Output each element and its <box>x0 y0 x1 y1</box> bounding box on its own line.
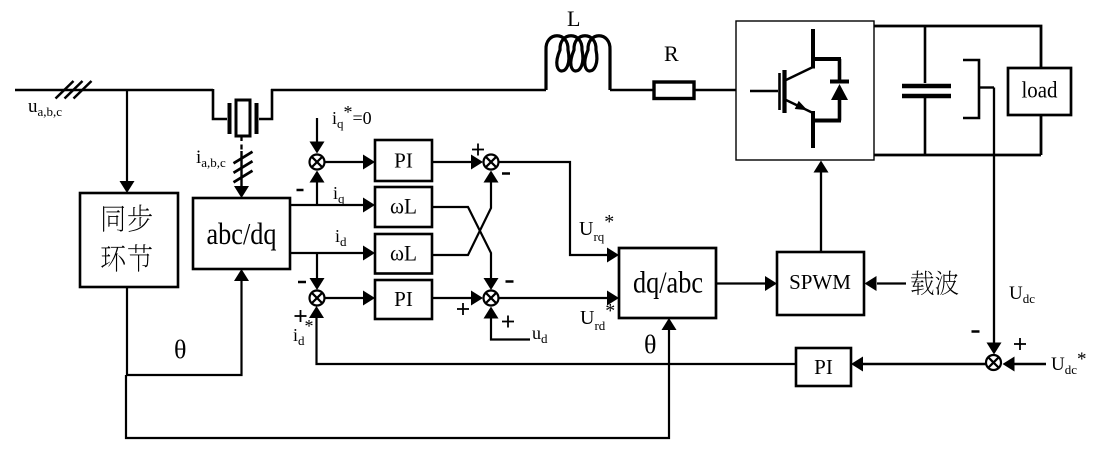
label id <box>335 226 347 249</box>
wire ct dip right <box>259 89 272 119</box>
wire iq ref input <box>310 118 325 154</box>
label id ref <box>293 316 314 348</box>
svg-text:R: R <box>664 41 679 66</box>
label carrier <box>911 270 958 295</box>
igbt Q1 emitter lead <box>811 111 841 148</box>
wire Udc ref input <box>1003 357 1047 372</box>
svg-text:θ: θ <box>644 330 656 359</box>
pi controller PI1 box <box>375 140 432 181</box>
summing junction U3a <box>484 155 499 170</box>
dc bus bottom <box>874 115 1041 155</box>
label Udc ref <box>1051 349 1087 377</box>
wire spwm to bridge <box>814 161 829 253</box>
label minus at U4 <box>972 330 980 333</box>
wire PI3 to id ref <box>309 306 796 364</box>
label Urd ref <box>580 300 615 333</box>
wire ct output dashed <box>240 136 242 152</box>
label plus at U4 <box>1014 338 1026 350</box>
wire U3b to dqabc <box>499 291 619 306</box>
label plus id ref <box>295 310 307 322</box>
3-phase slash marks current <box>234 152 253 183</box>
wire iq feedback up <box>310 171 325 206</box>
wire PI1 to U3a <box>432 155 483 170</box>
label dq/abc <box>633 265 703 300</box>
svg-text:PI: PI <box>394 149 413 173</box>
wire tap to sync block <box>120 89 135 193</box>
sync block box <box>80 193 178 287</box>
label wL1 <box>390 194 417 219</box>
wire ct to abcdq <box>234 151 249 198</box>
label plus U3b left <box>457 303 469 315</box>
wire theta to abcdq <box>127 269 249 375</box>
wire PI2 to U3b <box>432 291 483 306</box>
summing junction U1 <box>310 155 325 170</box>
wire wL1 cross to U3b <box>432 207 499 290</box>
decoupling wL2 box <box>375 234 432 274</box>
load box <box>1008 68 1071 115</box>
pi controller PI3 box <box>796 348 851 386</box>
label i_abc <box>196 147 226 170</box>
wire theta to dqabc <box>126 318 677 438</box>
svg-text:dq/abc: dq/abc <box>633 265 703 300</box>
capacitor C lower lead <box>924 98 927 155</box>
label theta 2 <box>644 330 656 359</box>
wire carrier input <box>865 276 907 291</box>
label minus U3a <box>502 172 510 175</box>
svg-text:ωL: ωL <box>390 194 417 219</box>
wire inductor to resistor <box>610 89 654 92</box>
pi controller PI2 box <box>375 280 432 319</box>
dc bus top <box>874 26 1041 68</box>
igbt Q1 body bar <box>782 70 786 113</box>
wire id out <box>290 246 375 261</box>
spwm block box <box>777 252 864 315</box>
voltage sensor bracket <box>963 60 979 118</box>
wire ct dip left <box>213 89 227 119</box>
wire U3a to dqabc <box>499 162 619 263</box>
wire iq out <box>290 198 375 213</box>
wire dqabc to spwm <box>716 276 777 291</box>
svg-text:load: load <box>1022 78 1058 103</box>
igbt Q1 collector lead <box>811 29 841 69</box>
resistor R <box>654 82 694 99</box>
summing junction U2 <box>310 291 325 306</box>
label u_abc <box>28 96 62 119</box>
summing junction U4 <box>986 355 1001 370</box>
label plus ud <box>502 316 514 328</box>
label L <box>567 6 580 31</box>
capacitor C plates <box>902 86 951 96</box>
wire U1 to PI1 <box>325 155 375 170</box>
label PI2 <box>394 287 413 311</box>
label theta 1 <box>174 335 186 364</box>
abc-dq block box <box>193 198 290 269</box>
3-phase slash marks voltage <box>56 81 92 99</box>
label minus U3b <box>506 280 514 283</box>
label load <box>1022 78 1058 103</box>
label minus id <box>298 281 306 284</box>
label Urq ref <box>579 211 614 244</box>
svg-text:L: L <box>567 6 580 31</box>
label iq <box>333 183 345 206</box>
label sync text line2 <box>101 244 152 272</box>
label plus U3a <box>472 144 484 156</box>
wire ac input <box>15 89 213 92</box>
svg-text:θ: θ <box>174 335 186 364</box>
label SPWM <box>789 270 851 294</box>
wire wL2 cross to U3a <box>432 171 499 256</box>
svg-text:abc/dq: abc/dq <box>207 216 277 251</box>
converter bridge box <box>736 21 874 160</box>
label R <box>664 41 679 66</box>
igbt Q1 emitter diagonal <box>786 100 813 114</box>
wire U4 to PI3 <box>851 357 986 372</box>
wire U2 to PI2 <box>325 291 375 306</box>
svg-text:PI: PI <box>814 355 833 379</box>
igbt Q1 collector diagonal <box>786 67 813 80</box>
inductor L <box>546 36 610 90</box>
label sync text line1 <box>103 204 152 231</box>
summing junction U3b <box>484 291 499 306</box>
freewheel diode D1 <box>830 59 849 121</box>
label Udc <box>1009 283 1035 306</box>
label PI1 <box>394 149 413 173</box>
wire ac to inductor <box>271 89 546 92</box>
svg-text:PI: PI <box>394 287 413 311</box>
svg-text:SPWM: SPWM <box>789 270 851 294</box>
igbt Q1 gate lead <box>750 90 778 93</box>
svg-text:ωL: ωL <box>390 241 417 266</box>
label PI3 <box>814 355 833 379</box>
wire sensor tap <box>979 86 994 88</box>
label ud <box>532 323 548 346</box>
wire ud input <box>484 307 531 340</box>
wire resistor to bridge <box>694 89 736 92</box>
label minus iq <box>297 189 304 192</box>
label abc/dq <box>207 216 277 251</box>
label wL2 <box>390 241 417 266</box>
capacitor C upper lead <box>924 26 927 83</box>
decoupling wL1 box <box>375 187 432 227</box>
wire Udc sense <box>987 88 1002 355</box>
wire id feedback down <box>310 253 325 290</box>
dq-abc block box <box>619 248 716 318</box>
label iq ref <box>332 102 372 131</box>
current transformer CT <box>230 100 257 136</box>
igbt Q1 gate bar <box>778 73 781 110</box>
